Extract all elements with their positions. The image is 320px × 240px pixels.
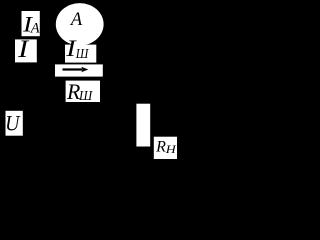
svg-text:A: A (30, 21, 40, 37)
current direction arrow shaft (63, 68, 83, 70)
svg-text:Ш: Ш (78, 88, 94, 103)
svg-text:R: R (155, 139, 166, 156)
svg-text:U: U (5, 110, 21, 135)
current direction arrow head (81, 67, 88, 72)
label I box (15, 39, 37, 62)
resistor RH body (136, 104, 150, 147)
ammeter A circle (56, 3, 104, 45)
label U box (6, 111, 23, 136)
label IA box (22, 11, 40, 36)
svg-text:Ш: Ш (75, 47, 90, 62)
svg-text:Н: Н (165, 144, 177, 156)
label Ish box (65, 45, 96, 63)
svg-text:A: A (69, 9, 83, 30)
label Rsh box (66, 81, 100, 102)
label RH box (154, 137, 177, 159)
arrow box (55, 64, 103, 76)
